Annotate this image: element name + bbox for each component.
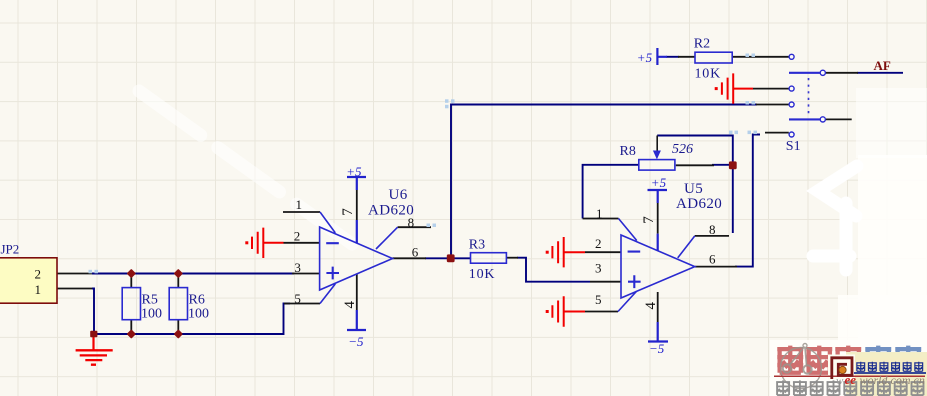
svg-text:AF: AF: [874, 58, 891, 73]
svg-text:AD620: AD620: [368, 203, 414, 219]
svg-text:+5: +5: [637, 50, 653, 65]
svg-text:+5: +5: [346, 164, 362, 179]
svg-text:2: 2: [294, 228, 301, 243]
svg-text:6: 6: [709, 251, 716, 266]
svg-text:1: 1: [596, 206, 603, 221]
svg-text:AD620: AD620: [676, 196, 722, 212]
svg-text:6: 6: [412, 244, 419, 259]
svg-text:w: w: [836, 375, 844, 387]
svg-text:526: 526: [672, 142, 693, 157]
svg-text:R3: R3: [469, 238, 485, 253]
svg-text:−5: −5: [649, 341, 665, 356]
svg-text:1: 1: [35, 282, 42, 297]
svg-text:R5: R5: [142, 293, 158, 308]
svg-text:100: 100: [188, 307, 209, 322]
svg-text:+5: +5: [651, 175, 667, 190]
svg-text:JP2: JP2: [1, 242, 20, 257]
svg-text:5: 5: [595, 292, 602, 307]
svg-text:S1: S1: [786, 139, 801, 154]
svg-text:−5: −5: [348, 334, 364, 349]
svg-text:3: 3: [294, 260, 301, 275]
svg-text:100: 100: [141, 307, 162, 322]
svg-text:U5: U5: [684, 181, 703, 197]
svg-text:10K: 10K: [695, 67, 722, 82]
svg-text:R2: R2: [694, 37, 710, 52]
svg-text:3: 3: [595, 261, 602, 276]
svg-text:4: 4: [342, 301, 358, 309]
svg-text:2: 2: [35, 267, 42, 282]
svg-text:R6: R6: [189, 293, 205, 308]
svg-text:4: 4: [643, 302, 659, 310]
svg-text:7: 7: [641, 216, 657, 224]
svg-text:ee: ee: [845, 372, 857, 387]
svg-text:2: 2: [595, 236, 602, 251]
svg-text:10K: 10K: [469, 267, 496, 282]
svg-text:1: 1: [296, 197, 303, 212]
svg-text:7: 7: [340, 208, 356, 216]
svg-text:U6: U6: [389, 187, 408, 203]
svg-text:world.com.cn: world.com.cn: [860, 373, 925, 387]
svg-text:R8: R8: [620, 144, 636, 159]
svg-text:5: 5: [294, 291, 301, 306]
svg-text:8: 8: [709, 222, 716, 237]
